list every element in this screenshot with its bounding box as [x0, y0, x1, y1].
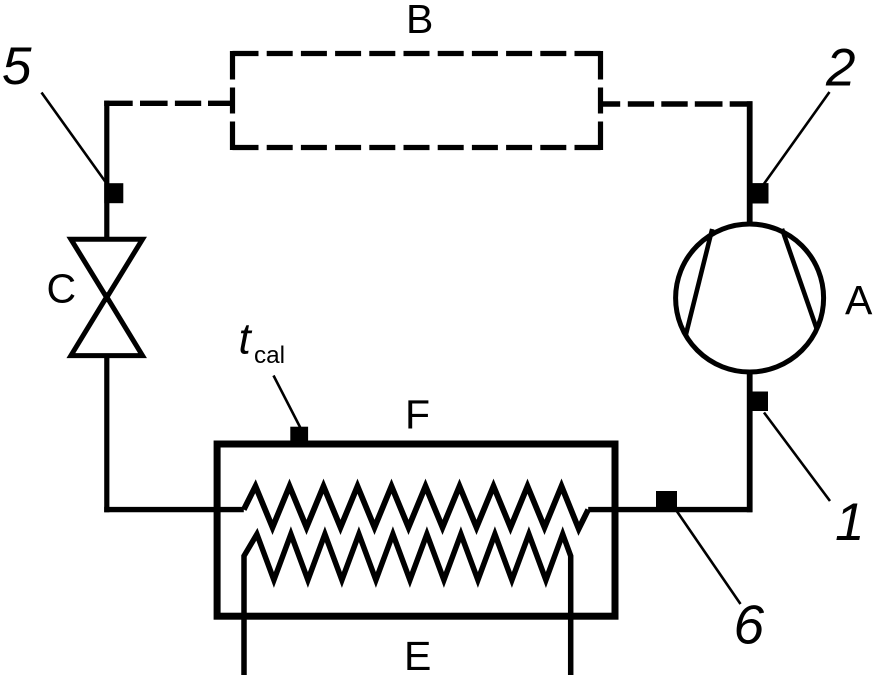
leader line to label 1: [764, 413, 830, 502]
wire: left vertical below valve: [104, 356, 109, 513]
svg-text:C: C: [47, 266, 77, 312]
water coil E (lower zigzag with down pipes): [244, 534, 571, 675]
sensor point 1 (black square below compressor): [749, 392, 768, 412]
svg-text:1: 1: [835, 493, 864, 552]
wire: left vertical riser (node 5 line): [104, 101, 109, 240]
wire: bottom-left horizontal into heat exchanger F: [104, 507, 244, 512]
sensor point 2 (black square on right riser): [752, 183, 769, 203]
svg-text:cal: cal: [254, 342, 285, 369]
svg-text:F: F: [405, 391, 430, 437]
compressor A (circle): [676, 224, 824, 372]
expansion valve C (two triangles): [71, 239, 143, 355]
sensor point 5 (black square on left riser): [104, 183, 123, 203]
compressor A left chord: [686, 229, 713, 335]
wire: top-right dashed horizontal from box B to compressor riser: [601, 101, 753, 106]
condenser B dashed box: top edge: [233, 51, 601, 56]
condenser B dashed box: right edge: [598, 51, 603, 150]
wire: top-left dashed horizontal from valve riser to box B: [104, 101, 232, 106]
svg-text:E: E: [404, 633, 431, 679]
leader line to label 2: [764, 92, 830, 185]
wire: bottom-right horizontal from F to compressor downcomer: [588, 507, 752, 512]
label t_cal: [239, 315, 286, 369]
wire: right vertical above compressor: [747, 101, 753, 225]
condenser B dashed box: bottom edge: [233, 145, 601, 150]
sensor point 6 (black square on bottom-right wire): [656, 491, 677, 509]
svg-text:B: B: [406, 0, 433, 42]
sensor t_cal (black square on top of box F): [290, 427, 308, 444]
svg-text:6: 6: [734, 594, 765, 656]
heat exchanger F box: [217, 444, 615, 616]
svg-text:5: 5: [2, 37, 32, 96]
svg-text:t: t: [239, 315, 253, 364]
leader line to label 5: [42, 93, 108, 185]
condenser B dashed box: left edge: [230, 51, 235, 150]
wire: right vertical below compressor: [747, 371, 753, 512]
leader line to label t_cal: [274, 376, 301, 429]
svg-text:A: A: [845, 277, 873, 323]
leader line to label 6: [676, 510, 741, 604]
svg-text:2: 2: [825, 38, 855, 97]
refrigerant coil (upper zigzag) inside F: [244, 486, 588, 529]
compressor A right chord: [782, 229, 817, 329]
